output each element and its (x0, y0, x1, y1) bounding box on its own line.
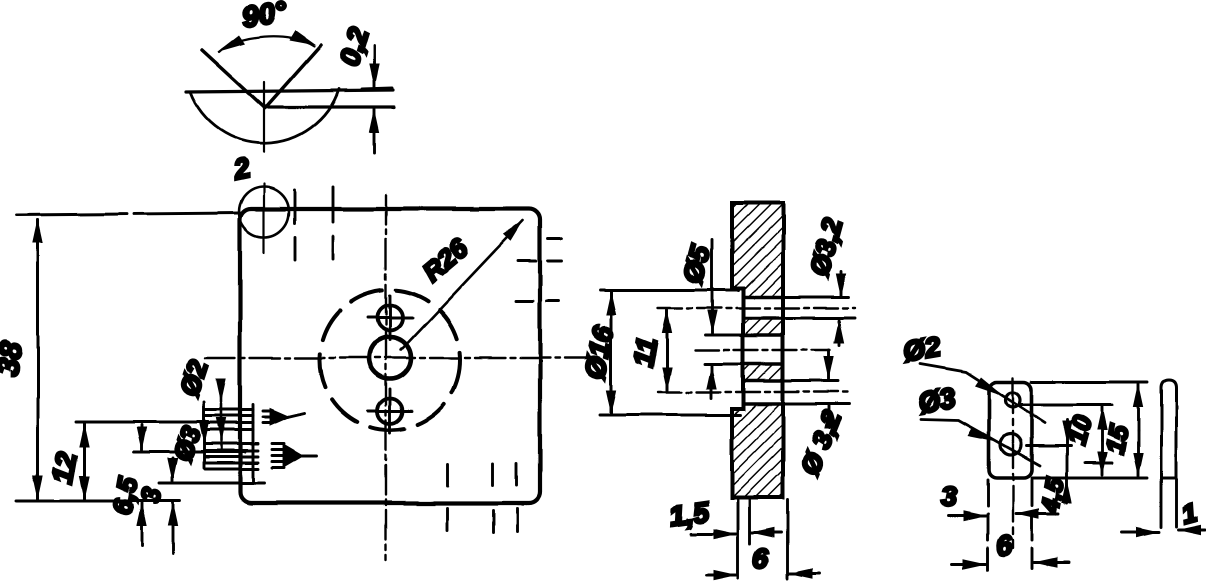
dia3 leader arrow (203, 412, 206, 444)
plate outline (240, 209, 540, 503)
angle dimension arc 90deg (219, 36, 314, 52)
centerline hole 2 (695, 349, 830, 351)
right edge tick 1 (548, 238, 562, 241)
ext short mid (1085, 462, 1112, 465)
section hatch top block (732, 203, 783, 297)
upper hole cross (368, 317, 412, 320)
drill tip symbol lower (272, 444, 316, 468)
top edge tick 1 (294, 190, 297, 223)
bracket hole centerline (1012, 378, 1014, 548)
angle arc arrowhead right (289, 30, 316, 45)
svg-text:15: 15 (1099, 422, 1134, 456)
countersink V left arm (202, 50, 265, 108)
centerline hole 1 (658, 307, 855, 309)
dim 3 line + outside arrows (172, 458, 175, 481)
bar ext right (1175, 478, 1178, 527)
punch depth line (264, 105, 394, 108)
svg-text:0,2: 0,2 (334, 25, 374, 70)
dim 6 arrows bracket (952, 563, 986, 566)
surface line top (186, 90, 393, 92)
dim 3 line (948, 515, 986, 518)
drill tip symbol upper (263, 410, 304, 424)
dim 3 extension (160, 482, 264, 485)
bottom edge tick 2 (492, 464, 495, 485)
recess circle Ø16 dashed (320, 290, 460, 430)
svg-text:R26: R26 (417, 232, 475, 287)
angle arc arrowhead left (217, 35, 245, 52)
hole dia2 (1006, 393, 1021, 408)
svg-text:4,5: 4,5 (1036, 475, 1070, 516)
right edge tick 2 (518, 260, 536, 263)
hole dia3 (1001, 435, 1022, 456)
svg-text:Ø2: Ø2 (901, 331, 944, 368)
dim 1,5 extension lines (737, 500, 740, 578)
ext bottom edge right (1032, 477, 1147, 480)
dim 11 line (666, 310, 669, 390)
dim 38 line (37, 220, 40, 499)
side hole aux vertical B (252, 405, 255, 481)
svg-text:1: 1 (1178, 497, 1200, 530)
centerline hole 3 (658, 391, 850, 393)
dim 6 arrows (706, 574, 736, 577)
dim 15 line (1137, 384, 1140, 430)
svg-text:3: 3 (941, 481, 957, 512)
section hatch mid block 2 (743, 364, 783, 381)
svg-text:11: 11 (627, 335, 663, 369)
ext left edge down (987, 480, 990, 570)
section hatch mid block 1 (743, 318, 783, 335)
dim 0,2 extension ticks (362, 88, 392, 89)
svg-text:Ø2: Ø2 (174, 356, 214, 400)
section hatch bottom block (732, 404, 783, 498)
side hole Ø2 lines (205, 409, 253, 412)
hole band 1 edges (743, 295, 783, 299)
dia3 leader (920, 419, 1040, 466)
dim 6,5 line + outside arrows (141, 425, 144, 450)
svg-text:38: 38 (0, 339, 29, 377)
detail circle centerline (263, 184, 265, 253)
svg-text:6: 6 (753, 543, 769, 574)
dim 0,2 arrows (373, 46, 376, 87)
svg-text:1,5: 1,5 (668, 496, 711, 532)
countersink V right arm (265, 45, 321, 108)
dia2 leader arrowhead (975, 377, 1004, 396)
dim dia16 extension top (600, 289, 738, 292)
ext dia2 centerline right (1020, 404, 1112, 407)
band1 edge extensions right (783, 296, 849, 299)
center hole Ø5 (369, 337, 411, 379)
dim dia3,2 bottom arrows (828, 350, 831, 379)
bar outline (1161, 380, 1176, 478)
side hole Ø3 lines (205, 443, 258, 446)
lower hole cross (368, 410, 412, 413)
bottom edge tick 1 (446, 464, 449, 486)
dia3 leader arrowhead (967, 427, 997, 442)
dim 10 line (1101, 407, 1104, 441)
dia2 leader arrow (220, 390, 223, 402)
band3 edge extensions right (783, 380, 838, 383)
horizontal centerline (205, 357, 592, 359)
dim dia5 arrows (711, 240, 714, 333)
dim dia3,2 top arrows (840, 272, 843, 297)
dim 38 extension bottom (17, 500, 180, 503)
dia2 leader (920, 364, 1045, 423)
vertical centerline (385, 195, 387, 560)
svg-text:12: 12 (46, 450, 82, 486)
svg-text:90°: 90° (241, 0, 289, 34)
side hole aux vertical A (203, 402, 206, 468)
ext top edge right (1032, 381, 1147, 384)
lower hole Ø3.2 (378, 399, 403, 424)
dim dia16 extension bottom (600, 414, 740, 417)
dim dia16 line (610, 292, 613, 413)
detail boundary arc (190, 89, 339, 143)
dim 1,5 arrows (690, 533, 736, 536)
detail circle callout at corner (239, 187, 289, 237)
right edge tick 3 (516, 300, 533, 303)
dim 6,5 extension (134, 451, 245, 454)
top edge tick 2 (332, 187, 335, 222)
ext right edge down (1031, 480, 1034, 568)
svg-text:Ø16: Ø16 (579, 323, 619, 381)
ext dia3 centerline right (1027, 445, 1071, 448)
hole band 2 edges (743, 333, 783, 337)
svg-text:2: 2 (230, 152, 253, 186)
band2 edge extensions left (705, 334, 743, 337)
section outline with recess (732, 203, 783, 498)
vertical centerline of punch (263, 82, 265, 152)
svg-text:Ø3,2: Ø3,2 (804, 215, 848, 279)
dim 12 extension (76, 421, 208, 424)
svg-text:Ø3: Ø3 (916, 382, 959, 419)
upper hole Ø3.2 (378, 306, 403, 331)
bar ext left (1160, 478, 1163, 527)
svg-text:Ø 3,2: Ø 3,2 (795, 407, 848, 479)
dim 38 extension top (17, 213, 240, 215)
bracket outline (989, 382, 1032, 478)
dim 4,5 line (1066, 420, 1069, 444)
bottom edge tick 3 (516, 463, 519, 485)
R26 leader (401, 221, 523, 350)
dim 12 line (83, 424, 86, 499)
svg-text:6: 6 (995, 529, 1015, 562)
dim 6 extension line right (787, 500, 790, 578)
dim 1 arrows (1121, 531, 1159, 534)
hole band 3 edges (743, 379, 783, 383)
